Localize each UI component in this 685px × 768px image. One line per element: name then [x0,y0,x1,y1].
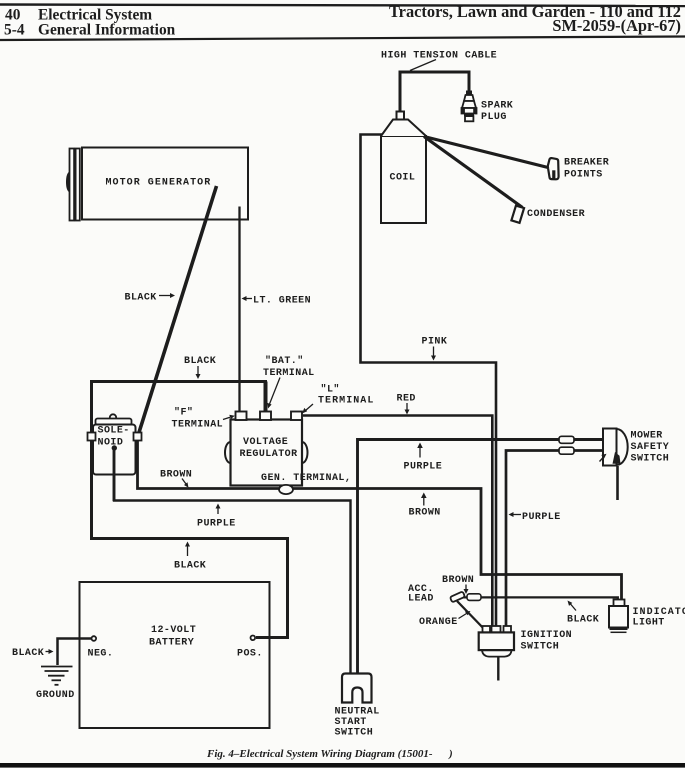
condenser [511,206,524,223]
arrow brown left [182,479,189,488]
svg-text:General Information: General Information [38,22,176,39]
svg-text:"BAT.": "BAT." [265,355,304,367]
neutral start switch [342,674,372,703]
svg-text:PURPLE: PURPLE [522,512,561,523]
arrow red [405,403,410,415]
svg-text:LEAD: LEAD [408,594,434,605]
solenoid dot terminal [112,445,117,450]
svg-text:GEN. TERMINAL,: GEN. TERMINAL, [261,473,351,484]
wire black: battery circuit (BAT terminal to POS) [92,382,288,638]
voltage regulator ears [225,442,236,463]
arrow black ground [46,649,54,654]
breaker points [548,158,559,179]
svg-text:12-VOLT: 12-VOLT [151,625,196,636]
svg-text:SWITCH: SWITCH [521,642,560,653]
svg-text:VOLTAGE: VOLTAGE [243,437,288,448]
svg-text:MOWER: MOWER [631,431,663,442]
pointer line for HIGH TENSION CABLE [410,60,436,71]
arrow lt green [242,296,253,301]
svg-text:LIGHT: LIGHT [633,618,665,629]
svg-text:SWITCH: SWITCH [631,454,670,465]
svg-text:ORANGE: ORANGE [419,617,458,628]
svg-text:NOID: NOID [98,438,124,449]
svg-text:TERMINAL: TERMINAL [318,396,374,407]
arrow black diagonal [159,293,175,298]
wire brown: solenoid to indicator light [138,440,622,600]
arrow purple left [216,504,221,515]
pointer L terminal [302,404,313,414]
svg-text:START: START [335,717,367,728]
header bottom rule [0,37,685,41]
wire mower switch stub [616,466,619,500]
svg-text:INDICATOR: INDICATOR [633,607,685,618]
arrow brown acc [464,585,469,595]
arrow F terminal [223,415,235,420]
svg-text:SM-2059-(Apr-67): SM-2059-(Apr-67) [552,16,681,35]
svg-text:BLACK: BLACK [12,648,44,659]
svg-text:SAFETY: SAFETY [631,442,670,453]
wire red: L terminal to ignition switch [303,416,492,628]
wire black: generator to solenoid (diagonal) [139,186,217,434]
wire lt green: generator to F terminal [238,207,240,413]
svg-text:SWITCH: SWITCH [335,728,374,739]
svg-text:5-4: 5-4 [4,22,25,39]
arrow pink [431,347,436,361]
svg-text:HIGH TENSION CABLE: HIGH TENSION CABLE [381,51,497,62]
svg-text:BLACK: BLACK [567,615,599,626]
wire black: acc lead to indicator light [460,597,618,600]
svg-text:RED: RED [397,394,416,405]
arrow orange [459,611,471,619]
svg-text:BREAKER: BREAKER [564,158,609,169]
svg-text:SPARK: SPARK [481,101,513,112]
wire pink: coil to ignition switch [361,135,497,628]
svg-text:BLACK: BLACK [184,356,216,367]
svg-text:NEUTRAL: NEUTRAL [335,707,380,718]
svg-text:CONDENSER: CONDENSER [527,209,585,220]
BAT terminal [260,412,271,421]
svg-text:Fig. 4–Electrical System Wirin: Fig. 4–Electrical System Wiring Diagram … [206,748,453,760]
POS terminal circle [251,636,256,641]
wire neg to ground [58,639,93,666]
svg-text:PURPLE: PURPLE [197,519,236,530]
svg-text:BROWN: BROWN [409,508,441,519]
ignition switch [479,626,514,657]
wire purple: mower switch to ignition switch [506,451,603,628]
mower safety switch connectors [559,436,574,443]
svg-text:PLUG: PLUG [481,112,507,123]
L terminal [291,412,302,421]
wire purple: solenoid to neutral start switch [114,449,351,673]
svg-text:SOLE-: SOLE- [98,426,130,437]
svg-text:"F": "F" [174,407,193,419]
svg-text:GROUND: GROUND [36,690,75,701]
wire coil to breaker points [424,137,548,168]
svg-text:BATTERY: BATTERY [149,638,194,649]
arrow purple right [509,512,522,517]
wire purple: main run to mower safety switch and neutral switch [358,440,604,673]
acc lead terminal [467,594,481,601]
solenoid left terminal [88,433,96,441]
arrow purple mid [417,443,423,458]
svg-text:COIL: COIL [390,173,416,184]
svg-text:REGULATOR: REGULATOR [240,449,298,460]
svg-text:BROWN: BROWN [160,470,192,481]
mower safety switch [600,429,628,466]
solenoid right terminal [134,433,142,441]
header top rule [0,5,685,7]
wire ignition switch stub [497,657,499,681]
svg-text:TERMINAL: TERMINAL [172,420,224,431]
NEG terminal circle [92,636,97,641]
arrow black indicator [568,601,577,611]
wire high tension cable [400,72,469,113]
arrow brown right [421,493,427,506]
wire purple from solenoid dot [113,448,116,501]
motor generator [66,148,248,221]
GEN terminal oval [279,485,293,494]
wire orange: acc lead to ignition switch [457,601,487,632]
F terminal [236,412,247,421]
svg-text:POINTS: POINTS [564,170,603,181]
svg-text:POS.: POS. [237,649,263,660]
spark plug [462,91,477,122]
svg-text:NEG.: NEG. [88,649,114,660]
svg-text:PINK: PINK [422,337,448,348]
svg-text:TERMINAL: TERMINAL [263,368,315,379]
solenoid [93,414,136,474]
voltage regulator [231,420,303,486]
arrow black lower [185,542,190,557]
svg-text:LT. GREEN: LT. GREEN [253,296,311,307]
indicator light [609,600,628,633]
svg-text:PURPLE: PURPLE [404,462,443,473]
svg-text:BROWN: BROWN [442,575,474,586]
acc lead connector [450,591,465,602]
battery [80,582,270,728]
svg-text:IGNITION: IGNITION [521,630,573,641]
svg-text:BLACK: BLACK [174,561,206,572]
svg-text:BLACK: BLACK [125,293,157,304]
ground symbol [41,667,73,685]
svg-text:MOTOR GENERATOR: MOTOR GENERATOR [106,178,212,189]
wire coil to condenser [424,137,523,208]
svg-text:"L": "L" [321,384,340,396]
bottom rule [0,763,685,768]
coil body [381,112,426,224]
arrow black upper [196,366,201,379]
pointer BAT terminal [267,378,280,409]
